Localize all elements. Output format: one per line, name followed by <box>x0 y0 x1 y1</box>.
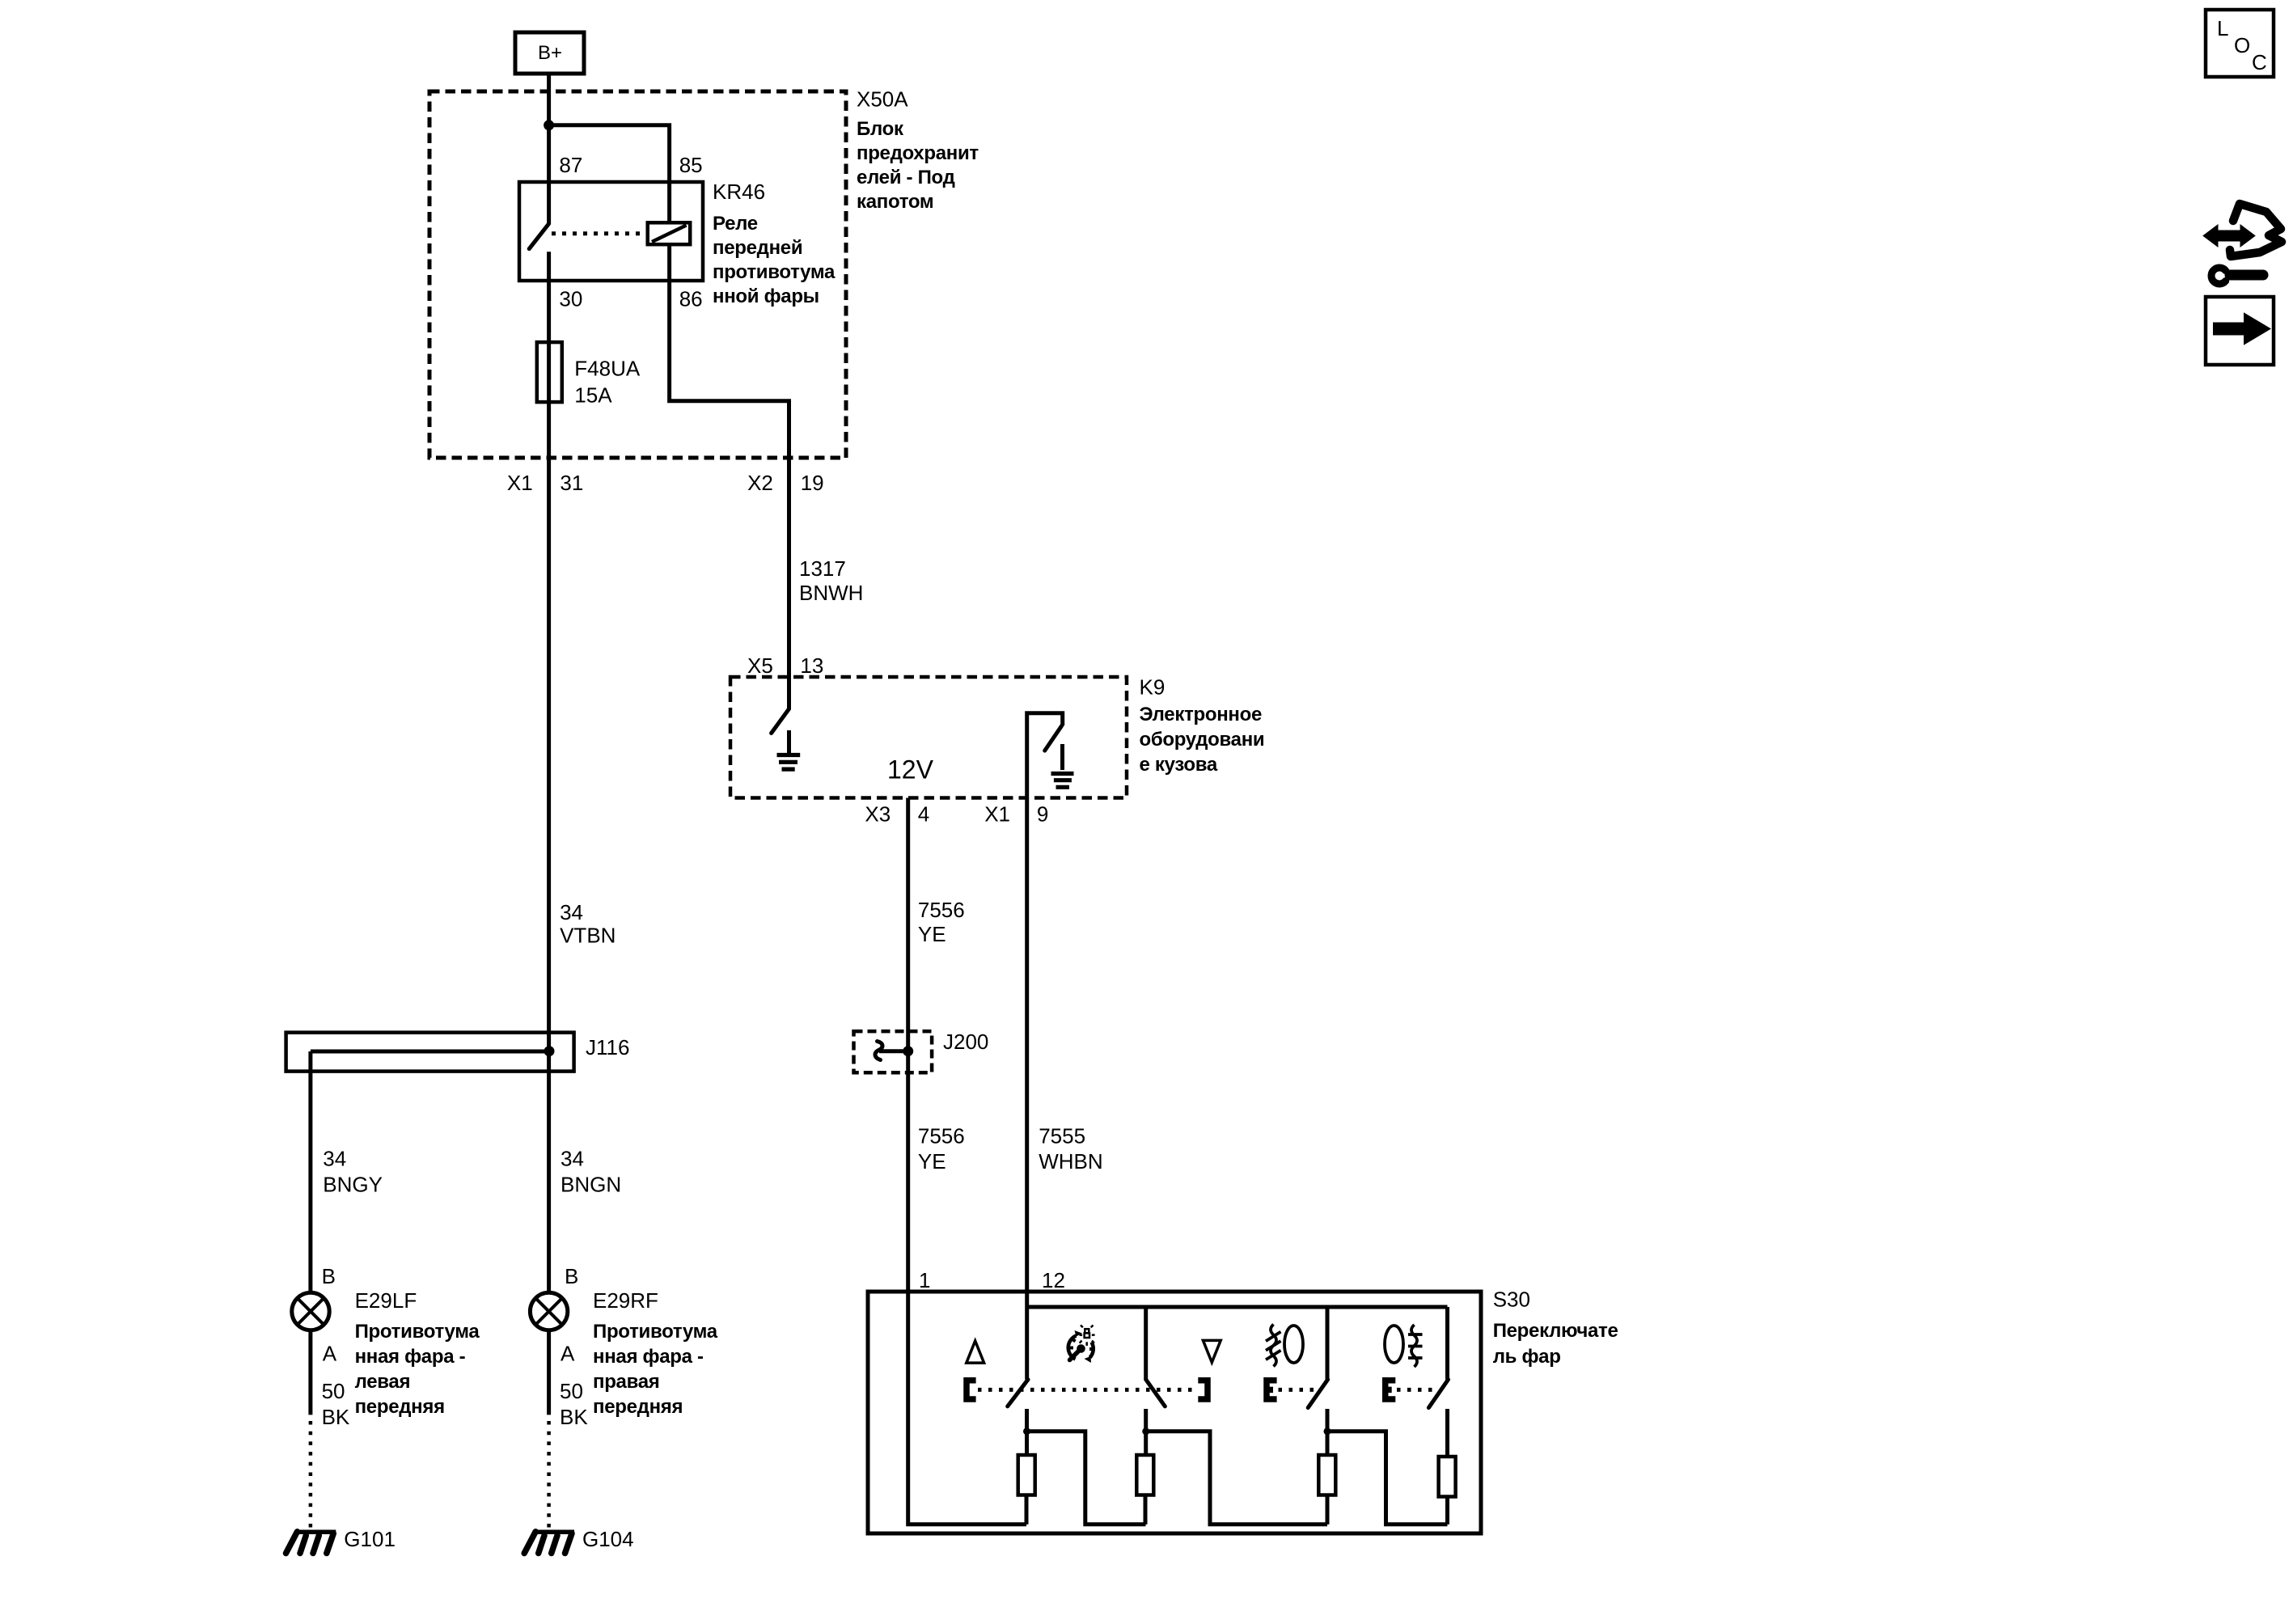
svg-text:7555: 7555 <box>1039 1124 1085 1148</box>
J116 internal bus <box>311 1050 549 1054</box>
node junction at J116 <box>544 1046 555 1056</box>
S30 resistor 3 <box>1318 1455 1335 1495</box>
svg-text:A: A <box>561 1342 575 1366</box>
S30 resistor 3 bottom stub <box>1326 1495 1330 1525</box>
svg-text:9: 9 <box>1037 802 1048 827</box>
harness routing icon <box>2203 204 2282 284</box>
svg-text:нная фара -: нная фара - <box>593 1346 704 1368</box>
svg-text:13: 13 <box>800 653 823 678</box>
svg-text:K9: K9 <box>1140 675 1166 700</box>
wire K9 pin X1-9 to S30 pin 12 (circuit 7555 WHBN) <box>1025 798 1029 1308</box>
ground G101 symbol <box>286 1532 336 1554</box>
svg-text:C: C <box>2252 50 2267 74</box>
S30 bracket switch 3 <box>1267 1381 1277 1399</box>
S30 resistor 1 <box>1018 1455 1035 1495</box>
svg-text:50: 50 <box>560 1379 583 1403</box>
svg-text:L: L <box>2217 16 2228 40</box>
svg-text:4: 4 <box>918 802 929 827</box>
svg-text:E29LF: E29LF <box>355 1288 417 1313</box>
svg-text:е кузова: е кузова <box>1140 754 1218 776</box>
svg-text:G101: G101 <box>344 1527 396 1551</box>
S30 ladder branch 2 <box>1146 1432 1327 1525</box>
ground G104 symbol <box>524 1532 574 1554</box>
svg-text:Противотума: Противотума <box>355 1321 480 1343</box>
svg-text:34: 34 <box>323 1147 346 1171</box>
svg-text:передняя: передняя <box>593 1396 683 1418</box>
svg-text:B: B <box>565 1264 578 1288</box>
S30 bracket switch 4 <box>1386 1381 1396 1399</box>
svg-text:оборудовани: оборудовани <box>1140 729 1265 751</box>
svg-text:X5: X5 <box>747 653 773 678</box>
svg-text:передняя: передняя <box>355 1396 445 1418</box>
svg-text:BK: BK <box>322 1405 350 1429</box>
node B+ battery feed box <box>515 32 584 74</box>
svg-text:KR46: KR46 <box>713 180 765 204</box>
S30 icon triangle up (switch 1) <box>967 1341 984 1363</box>
dotted wire to ground G104 <box>547 1421 551 1531</box>
svg-text:BNGN: BNGN <box>561 1173 621 1197</box>
node junction at J200 <box>903 1046 913 1056</box>
svg-text:BNGY: BNGY <box>323 1173 383 1197</box>
svg-text:YE: YE <box>918 1149 946 1174</box>
S30 switch 3 feed <box>1326 1307 1330 1380</box>
S30 switch 4 blade <box>1428 1380 1448 1408</box>
splice J200 dashed box <box>854 1031 933 1072</box>
svg-text:YE: YE <box>918 922 946 946</box>
S30 bracket left of switch 1 <box>967 1381 976 1399</box>
wire J116 to lamp E29LF (circuit 34 BNGY) <box>308 1051 312 1292</box>
svg-text:Реле: Реле <box>713 213 758 235</box>
node junction switch 3 to resistor 4 branch <box>1324 1427 1331 1435</box>
splice J200 tap with hook <box>879 1049 908 1053</box>
wire junction to relay coil pin 85 <box>549 125 670 222</box>
wire B+ to fuse block <box>547 74 551 224</box>
S30 switch 2 feed <box>1144 1307 1148 1380</box>
K9 internal ground left <box>787 730 791 753</box>
svg-text:G104: G104 <box>582 1527 634 1551</box>
svg-text:86: 86 <box>679 287 703 311</box>
svg-text:X2: X2 <box>747 471 773 495</box>
S30 switch 4 feed <box>1445 1307 1449 1380</box>
S30 icon triangle down (switch 3 area) <box>1203 1340 1221 1362</box>
svg-text:15A: 15A <box>574 383 612 407</box>
S30 resistor 2 <box>1136 1455 1153 1495</box>
connector K9 dashed box <box>730 677 1127 798</box>
S30 switch 2 blade <box>1146 1380 1166 1406</box>
svg-text:34: 34 <box>560 900 583 924</box>
svg-text:правая: правая <box>593 1371 660 1393</box>
wire pin 30 through fuse F48UA down to J116 and lamp E29RF <box>547 252 551 1292</box>
svg-text:X1: X1 <box>984 802 1010 827</box>
svg-text:Переключате: Переключате <box>1493 1320 1618 1342</box>
svg-text:X3: X3 <box>865 802 891 827</box>
LOC legend box <box>2206 10 2274 77</box>
node junction at B+ feed <box>544 120 554 130</box>
svg-text:WHBN: WHBN <box>1039 1149 1102 1174</box>
svg-text:передней: передней <box>713 237 802 259</box>
headlamp switch S30 box <box>868 1292 1481 1533</box>
svg-text:31: 31 <box>560 471 583 495</box>
S30 icon panel dimmer gauge (switch 2) <box>1068 1326 1095 1364</box>
svg-text:19: 19 <box>801 471 824 495</box>
svg-text:F48UA: F48UA <box>574 357 641 381</box>
relay KR46 coil <box>648 222 691 244</box>
S30 switch 1 lower stub <box>1025 1409 1029 1455</box>
S30 switch 4 lower stub <box>1445 1409 1449 1457</box>
S30 bracket right of switch 2 <box>1198 1381 1208 1399</box>
S30 wire pin 1 riser to ladder bottom <box>908 1292 1026 1525</box>
S30 resistor 4 bottom stub <box>1445 1497 1449 1525</box>
svg-text:7556: 7556 <box>918 898 965 922</box>
svg-text:Блок: Блок <box>857 118 904 140</box>
S30 switch 3 lower stub <box>1326 1409 1330 1455</box>
wire lamp E29LF pin A (circuit 50 BK) <box>308 1330 312 1415</box>
svg-text:X50A: X50A <box>857 87 908 112</box>
svg-text:B+: B+ <box>538 42 562 64</box>
svg-text:7556: 7556 <box>918 1124 965 1148</box>
node junction switch 2 to resistor 3 branch <box>1142 1427 1149 1435</box>
wire lamp E29RF pin A (circuit 50 BK) <box>547 1330 551 1415</box>
S30 internal bus from pin 12 <box>1027 1305 1448 1309</box>
svg-text:12V: 12V <box>887 755 934 785</box>
lamp E29RF symbol <box>530 1292 567 1330</box>
svg-text:B: B <box>322 1264 336 1288</box>
svg-text:O: O <box>2234 33 2250 57</box>
S30 ladder branch 3 <box>1327 1432 1448 1525</box>
svg-text:Электронное: Электронное <box>1140 704 1263 725</box>
fuse F48UA body <box>537 342 562 402</box>
svg-text:нной фары: нной фары <box>713 285 819 307</box>
wire K9 pin 9 internal riser <box>1027 713 1063 798</box>
wire relay pin 86 to X50A pin X2-19 <box>670 244 789 708</box>
K9 internal switch blade (pin 9 side) <box>1045 725 1062 751</box>
svg-text:30: 30 <box>559 287 582 311</box>
svg-text:предохранит: предохранит <box>857 142 979 164</box>
lamp E29LF symbol <box>292 1292 329 1330</box>
relay KR46 actuation dotted link <box>552 231 645 235</box>
svg-text:X1: X1 <box>507 471 533 495</box>
svg-text:1: 1 <box>919 1268 930 1292</box>
svg-text:1317: 1317 <box>799 556 846 581</box>
S30 switch 1 feed <box>1025 1307 1029 1380</box>
S30 ladder branch 1 <box>1027 1432 1146 1525</box>
S30 switch 1 blade <box>1008 1380 1028 1406</box>
relay KR46 box <box>519 182 703 281</box>
S30 icon front fog lamp (switch 3) <box>1266 1325 1303 1367</box>
svg-text:елей - Под: елей - Под <box>857 167 955 188</box>
svg-text:капотом: капотом <box>857 191 933 213</box>
S30 resistor 4 <box>1439 1457 1456 1497</box>
S30 icon rear fog lamp (switch 4) <box>1385 1325 1423 1367</box>
svg-text:VTBN: VTBN <box>560 924 616 948</box>
svg-text:87: 87 <box>559 153 582 177</box>
svg-text:J200: J200 <box>943 1030 988 1054</box>
S30 switch 2 lower stub <box>1144 1409 1148 1455</box>
fuse block X50A dashed box <box>429 91 846 458</box>
svg-text:Противотума: Противотума <box>593 1321 718 1343</box>
S30 resistor 2 bottom stub <box>1144 1495 1148 1525</box>
S30 resistor 1 bottom stub <box>1025 1495 1029 1525</box>
K9 internal ground right <box>1060 744 1064 770</box>
S30 dotted link switch 3 <box>1279 1388 1318 1392</box>
relay KR46 switch blade <box>529 224 548 249</box>
svg-text:BK: BK <box>560 1405 588 1429</box>
svg-text:противотума: противотума <box>713 261 836 283</box>
svg-text:12: 12 <box>1042 1268 1065 1292</box>
wire K9 pin X3-4 to S30 pin 1 (circuit 7556 YE) <box>906 798 910 1292</box>
next-page arrow <box>2214 314 2270 344</box>
svg-text:нная фара -: нная фара - <box>355 1346 466 1368</box>
S30 ganged dotted link switches 1-2 <box>978 1388 1196 1392</box>
svg-text:S30: S30 <box>1493 1288 1530 1312</box>
K9 internal switch blade (pin 13 side) <box>772 709 789 734</box>
svg-text:левая: левая <box>355 1371 411 1393</box>
svg-text:J116: J116 <box>586 1035 629 1059</box>
node junction switch 1 to resistor 2 branch <box>1023 1427 1030 1435</box>
S30 dotted link switch 4 <box>1397 1388 1436 1392</box>
svg-text:ль фар: ль фар <box>1493 1346 1561 1368</box>
svg-text:A: A <box>323 1342 337 1366</box>
dotted wire to ground G101 <box>309 1421 313 1531</box>
svg-text:50: 50 <box>322 1379 345 1403</box>
svg-text:85: 85 <box>679 153 703 177</box>
splice J116 box <box>286 1033 574 1072</box>
next-page arrow box <box>2206 297 2274 365</box>
svg-text:E29RF: E29RF <box>593 1288 658 1313</box>
svg-text:BNWH: BNWH <box>799 581 863 605</box>
svg-text:34: 34 <box>561 1147 584 1171</box>
S30 switch 3 blade <box>1308 1380 1327 1408</box>
